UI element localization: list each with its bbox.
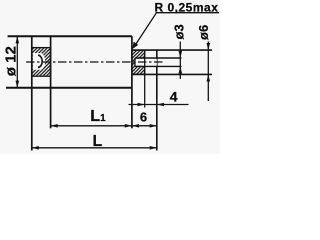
body top edge with left extension — [8, 35, 132, 37]
L left arrow — [32, 146, 39, 150]
body left edge extended down as extension line for L — [31, 36, 33, 150]
left hatched section block — [32, 48, 51, 77]
svg-text:ø 12: ø 12 — [2, 46, 19, 76]
dimension L line — [32, 147, 157, 149]
leader diagonal for R 0,25max — [134, 13, 157, 48]
centerline axis — [26, 61, 163, 63]
arc detail inside cavity — [38, 55, 42, 67]
dimension diam3 line — [179, 42, 181, 80]
svg-text:4: 4 — [170, 89, 178, 105]
svg-text:L1: L1 — [90, 108, 106, 125]
L1 left arrow — [51, 124, 58, 128]
body bottom edge with left extension — [6, 87, 132, 89]
hole white band — [135, 59, 157, 66]
hole diam3 bottom line extended right as extension line — [135, 65, 182, 67]
inner face line extended down as extension line for L1 — [50, 36, 52, 128]
diam3 lower outside arrow — [179, 66, 183, 73]
svg-text:R 0,25max: R 0,25max — [155, 0, 219, 14]
6 right arrow — [150, 124, 157, 128]
svg-text:6: 6 — [140, 109, 147, 124]
svg-text:ø6: ø6 — [196, 25, 211, 40]
body right edge extended down as extension line — [131, 36, 133, 128]
dimension diam6 line — [207, 42, 209, 102]
hole bottom face — [134, 58, 136, 66]
diam3 upper outside arrow — [179, 51, 183, 58]
chain dimension line L1 and 6 — [51, 125, 157, 127]
4 left outside arrow — [138, 103, 145, 107]
leader shelf — [156, 12, 220, 14]
diam12 arrow up — [16, 36, 20, 43]
dimension 4 line — [129, 104, 189, 106]
L1 right arrow — [125, 124, 132, 128]
right hatched section block on stem — [132, 50, 145, 74]
stem top edge extended right as extension line for diam6 — [132, 49, 212, 51]
stem hatch boundary extended down as extension line for 4 — [144, 50, 146, 107]
stem end face extended down as extension line for L and 4 — [156, 50, 158, 150]
6 left arrow — [132, 124, 139, 128]
L right arrow — [150, 146, 157, 150]
diam6 lower arrow — [207, 74, 211, 81]
hole cavity in left section — [33, 53, 45, 70]
leader arrowhead at fillet — [132, 42, 138, 49]
dimension diam12 line — [16, 36, 18, 87]
diam6 upper arrow — [207, 43, 211, 50]
4 right outside arrow — [157, 103, 164, 107]
svg-text:L: L — [93, 133, 103, 150]
stem bottom edge extended right as extension line for diam6 — [132, 73, 212, 75]
hole diam3 top line extended right as extension line — [135, 57, 182, 59]
diam12 arrow down — [16, 81, 20, 88]
svg-text:ø3: ø3 — [172, 24, 187, 39]
